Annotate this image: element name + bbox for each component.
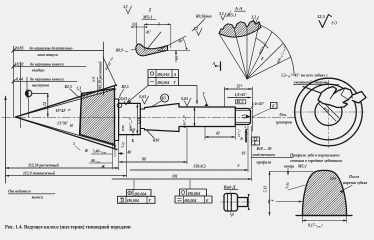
shaft cone section xyxy=(145,104,180,132)
gear cone pitch line upper xyxy=(16,89,117,117)
gear cone tip line lower xyxy=(16,117,118,150)
gear cone tip line upper xyxy=(16,85,117,117)
tolerance frame group 2 xyxy=(180,189,207,196)
view D vertical dim xyxy=(248,194,250,210)
detail I groove crescent xyxy=(136,44,168,56)
datum frame Е xyxy=(271,103,278,109)
gear teeth back step xyxy=(114,86,116,148)
section mark Д (bottom) xyxy=(245,130,247,143)
groove detail I location xyxy=(117,103,122,108)
gear cone pitch line lower xyxy=(16,117,117,146)
circle centerlines xyxy=(293,111,364,113)
leader from tolerance frames to journal xyxy=(128,86,148,103)
rotated dim 9,18 xyxy=(136,104,138,134)
section mark А (top) xyxy=(220,62,222,71)
detail I small vert dim xyxy=(175,51,177,63)
gear back face xyxy=(115,99,119,141)
tooth profile dome hatched xyxy=(302,170,346,215)
center hole at tip xyxy=(246,115,251,119)
tolerance frame group 1 xyxy=(127,190,152,197)
tooth chamfer detail blob xyxy=(318,87,353,108)
A-A inner dim arc xyxy=(256,38,268,48)
bearing journal d30 xyxy=(179,107,235,127)
main shaft axis centerline xyxy=(2,117,296,119)
label R1,5 framed xyxy=(236,100,246,104)
datum stack near tip xyxy=(252,137,260,145)
tolerance frame pair upper xyxy=(148,70,179,78)
gear face view outer circle xyxy=(295,78,363,146)
datum circle marker xyxy=(25,90,31,96)
vertical line d43,38 расчетный xyxy=(103,42,105,95)
hub slot chords xyxy=(319,104,336,121)
profile note leader xyxy=(287,169,289,176)
angle line 14°22' at gear back xyxy=(103,57,117,86)
threaded tip xyxy=(235,109,250,125)
balloon 63 xyxy=(161,94,169,102)
A-A teeth band hatched xyxy=(219,21,261,38)
gear front face xyxy=(80,94,82,135)
dimension 12 vertical xyxy=(47,93,49,117)
view D tab xyxy=(238,198,248,207)
extension verticals below gear xyxy=(112,143,114,169)
tooth poking right xyxy=(353,92,367,104)
thread minor lines xyxy=(235,109,249,111)
extension verticals from rows to apex xyxy=(13,46,15,117)
note leader to tooth xyxy=(303,87,325,95)
gear face view hub circle xyxy=(315,99,342,126)
journal d40 outline xyxy=(119,103,141,134)
gear face view root circle xyxy=(301,84,357,140)
dome dim 7,13 xyxy=(269,171,313,173)
view D body xyxy=(224,194,238,212)
view D centerlines xyxy=(221,201,251,203)
A-A outer sweep arc xyxy=(261,26,294,75)
driven wheel axis xyxy=(5,96,7,183)
extension line x=98 xyxy=(97,77,99,95)
dome dim 9,17 xyxy=(302,216,304,223)
A-A fan radial lines xyxy=(220,35,248,80)
dome base line xyxy=(296,215,352,217)
groove neck xyxy=(140,108,144,130)
gear body section hatch xyxy=(80,89,115,145)
